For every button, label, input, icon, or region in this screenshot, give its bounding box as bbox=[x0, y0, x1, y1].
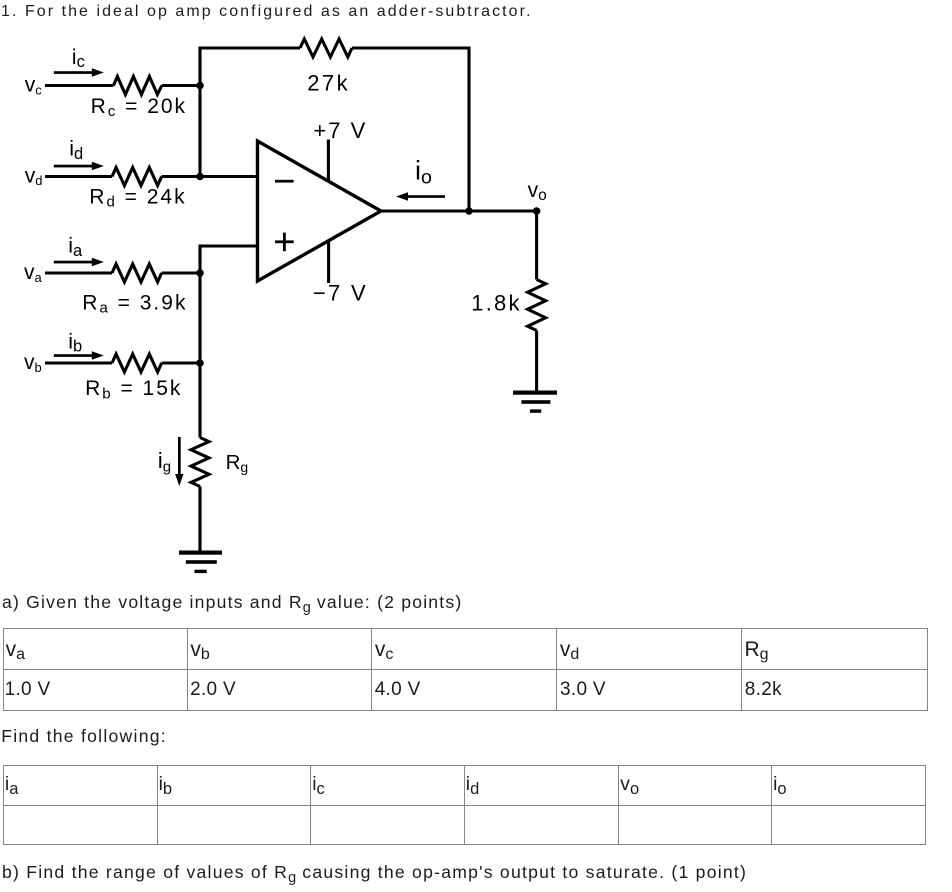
svg-text:va: va bbox=[24, 261, 43, 285]
svg-text:+7 V: +7 V bbox=[313, 118, 367, 143]
svg-text:ib: ib bbox=[68, 329, 82, 355]
svg-text:−7 V: −7 V bbox=[313, 280, 368, 305]
svg-text:ig: ig bbox=[158, 448, 171, 475]
svg-text:Rg: Rg bbox=[226, 451, 249, 475]
svg-text:1.8k: 1.8k bbox=[471, 291, 521, 316]
svg-text:Rc = 20k: Rc = 20k bbox=[91, 95, 187, 120]
svg-text:ic: ic bbox=[72, 45, 85, 71]
svg-text:vo: vo bbox=[528, 179, 547, 204]
svg-text:id: id bbox=[69, 137, 83, 163]
svg-text:Rd = 24k: Rd = 24k bbox=[89, 186, 186, 211]
svg-text:vc: vc bbox=[25, 74, 43, 98]
svg-text:vd: vd bbox=[25, 164, 43, 188]
svg-text:vb: vb bbox=[24, 351, 42, 375]
svg-text:Ra = 3.9k: Ra = 3.9k bbox=[82, 292, 187, 317]
svg-text:ia: ia bbox=[68, 234, 83, 260]
svg-text:io: io bbox=[415, 156, 432, 189]
svg-text:27k: 27k bbox=[307, 71, 350, 96]
svg-text:Rb = 15k: Rb = 15k bbox=[85, 377, 182, 402]
